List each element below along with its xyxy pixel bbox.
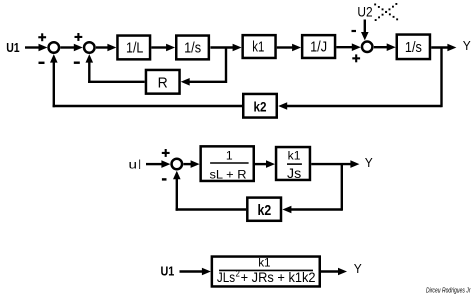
- label u1 (middle diagram input): [129, 157, 142, 172]
- block 1/L: [117, 36, 150, 60]
- label Y (middle diagram output): [365, 155, 373, 170]
- svg-text:U1: U1: [6, 40, 19, 55]
- wire S3 to block 1/s (second integrator): [374, 43, 396, 51]
- sign + at S4: [162, 149, 170, 157]
- wire S1 to summing junction S2: [60, 44, 83, 52]
- svg-text:Dirceu Rodrigues Jr: Dirceu Rodrigues Jr: [426, 287, 471, 294]
- svg-text:+ JRs + k1k2: + JRs + k1k2: [241, 270, 316, 285]
- watermark signature: [426, 287, 471, 294]
- svg-text:I: I: [138, 157, 141, 172]
- summing junction S1: [49, 42, 60, 53]
- svg-text:k2: k2: [254, 99, 267, 115]
- wire S2 to block 1/L: [96, 44, 117, 52]
- svg-text:k1: k1: [258, 255, 270, 269]
- sign + at S2: [75, 33, 83, 41]
- wire into block k2 (middle feedback): [282, 206, 341, 214]
- wire branch after 1/s down to R row: [225, 48, 227, 84]
- wire output to Y (middle diagram): [311, 160, 359, 168]
- svg-text:U1: U1: [161, 263, 175, 278]
- wire k2 to below S1: [53, 105, 242, 107]
- wire 1/J to summing junction S3: [336, 43, 361, 51]
- wire branch down to k2 row (middle): [341, 164, 343, 211]
- sign + at S3: [352, 54, 360, 62]
- block 1/s (second integrator): [397, 35, 430, 60]
- summing junction S3: [362, 42, 373, 53]
- wire U1 to summing junction S1: [25, 44, 48, 52]
- svg-text:k1: k1: [288, 148, 301, 162]
- svg-text:u: u: [129, 158, 138, 172]
- wire branch from output down to k2 row: [440, 48, 442, 108]
- block 1/J: [302, 35, 335, 58]
- svg-text:2: 2: [236, 268, 240, 278]
- svg-text:JLs: JLs: [217, 270, 235, 285]
- svg-text:1/s: 1/s: [184, 40, 201, 56]
- sign - at S3: [352, 30, 357, 32]
- block k2 (top diagram): [243, 94, 277, 118]
- wire k2 to below S4: [176, 208, 246, 210]
- svg-text:U2: U2: [357, 4, 372, 19]
- sign - at S4: [162, 178, 167, 180]
- wire up into S1: [50, 54, 58, 107]
- summing junction S4: [172, 159, 183, 170]
- svg-text:Y: Y: [365, 155, 373, 170]
- label U2 (disturbance input): [357, 4, 372, 19]
- wire k1 to block 1/J: [277, 44, 301, 52]
- label U1 (bottom diagram input): [161, 263, 175, 278]
- sign - at S2: [74, 62, 80, 64]
- dotted X scribble next to U2: [374, 3, 398, 21]
- wire U1 to transfer-function block: [180, 268, 211, 276]
- svg-text:Js: Js: [287, 166, 301, 181]
- wire U2 down into S3: [361, 20, 369, 41]
- block k2 (middle diagram): [247, 198, 281, 221]
- block R: [146, 70, 180, 94]
- wire up into S2: [86, 54, 94, 83]
- wire output to Y (bottom diagram): [321, 268, 347, 276]
- svg-text:1/L: 1/L: [126, 40, 143, 56]
- block k1/Js: [276, 147, 310, 181]
- svg-text:R: R: [158, 76, 168, 92]
- wire 1/L to block 1/s: [151, 44, 175, 52]
- svg-text:k1: k1: [252, 40, 264, 56]
- wire into block k2 (top feedback): [278, 102, 441, 110]
- wire output to Y (top diagram): [431, 44, 456, 52]
- wire 1/s to block k1 (with tap node for R feedback): [210, 44, 241, 52]
- label U1 (top diagram input): [6, 40, 19, 55]
- block 1/s (first integrator): [176, 36, 209, 60]
- wire to block k1/Js: [255, 160, 275, 168]
- wire u1 to summing junction S4: [146, 160, 170, 168]
- svg-text:k2: k2: [258, 203, 272, 219]
- block 1/(sL+R): [201, 146, 254, 181]
- wire into block R: [181, 78, 226, 86]
- svg-text:Y: Y: [463, 38, 471, 53]
- label Y (bottom diagram output): [354, 261, 362, 276]
- block k1: [243, 35, 276, 58]
- block k1/(JLs^2+JRs+k1k2): [212, 255, 320, 286]
- svg-text:1: 1: [226, 148, 233, 162]
- wire S4 to block 1/(sL+R): [183, 160, 199, 168]
- wire R to below S2: [88, 81, 145, 83]
- summing junction S2: [84, 42, 95, 53]
- label Y (top diagram output): [463, 38, 471, 53]
- sign + at S1: [38, 33, 46, 41]
- wire up into S4: [173, 171, 181, 211]
- svg-text:1/s: 1/s: [405, 40, 422, 56]
- svg-text:1/J: 1/J: [310, 40, 327, 56]
- svg-text:Y: Y: [354, 261, 362, 276]
- sign - at S1: [39, 62, 45, 64]
- svg-text:sL + R: sL + R: [210, 167, 247, 181]
